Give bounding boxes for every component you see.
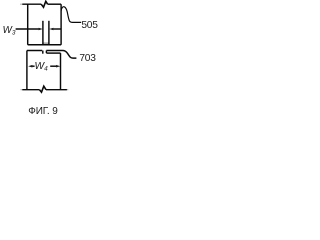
label W4 <box>35 63 48 74</box>
slit internal cap <box>43 42 49 44</box>
lower slab top right <box>46 52 60 54</box>
W4 dimension arrow right <box>56 65 60 68</box>
stub under left slit wall <box>42 51 44 54</box>
bottom of upper layer <box>28 44 61 46</box>
W3 dimension arrow left <box>39 28 43 31</box>
bottom surface line with break zigzag <box>20 89 22 91</box>
floor line left <box>27 50 42 52</box>
wall right upper <box>60 4 62 45</box>
W4 dimension arrow left <box>28 65 32 68</box>
floor line right into 703 leader <box>46 51 76 59</box>
wall left lower <box>26 51 28 90</box>
slit wall right (W3 opening) <box>48 21 50 45</box>
step corner to lower slab <box>45 51 47 54</box>
label 703 <box>79 54 95 63</box>
W3 dimension arrow right <box>49 28 53 31</box>
label 505 <box>81 21 97 30</box>
top surface line with break zigzag <box>20 3 23 5</box>
wall right lower <box>60 53 62 90</box>
caption FIG. 9 <box>28 107 58 116</box>
label W3 <box>3 27 16 38</box>
505 leader curve <box>61 7 81 23</box>
wall left upper <box>27 4 29 45</box>
slit wall left (W3 opening) <box>42 21 44 45</box>
